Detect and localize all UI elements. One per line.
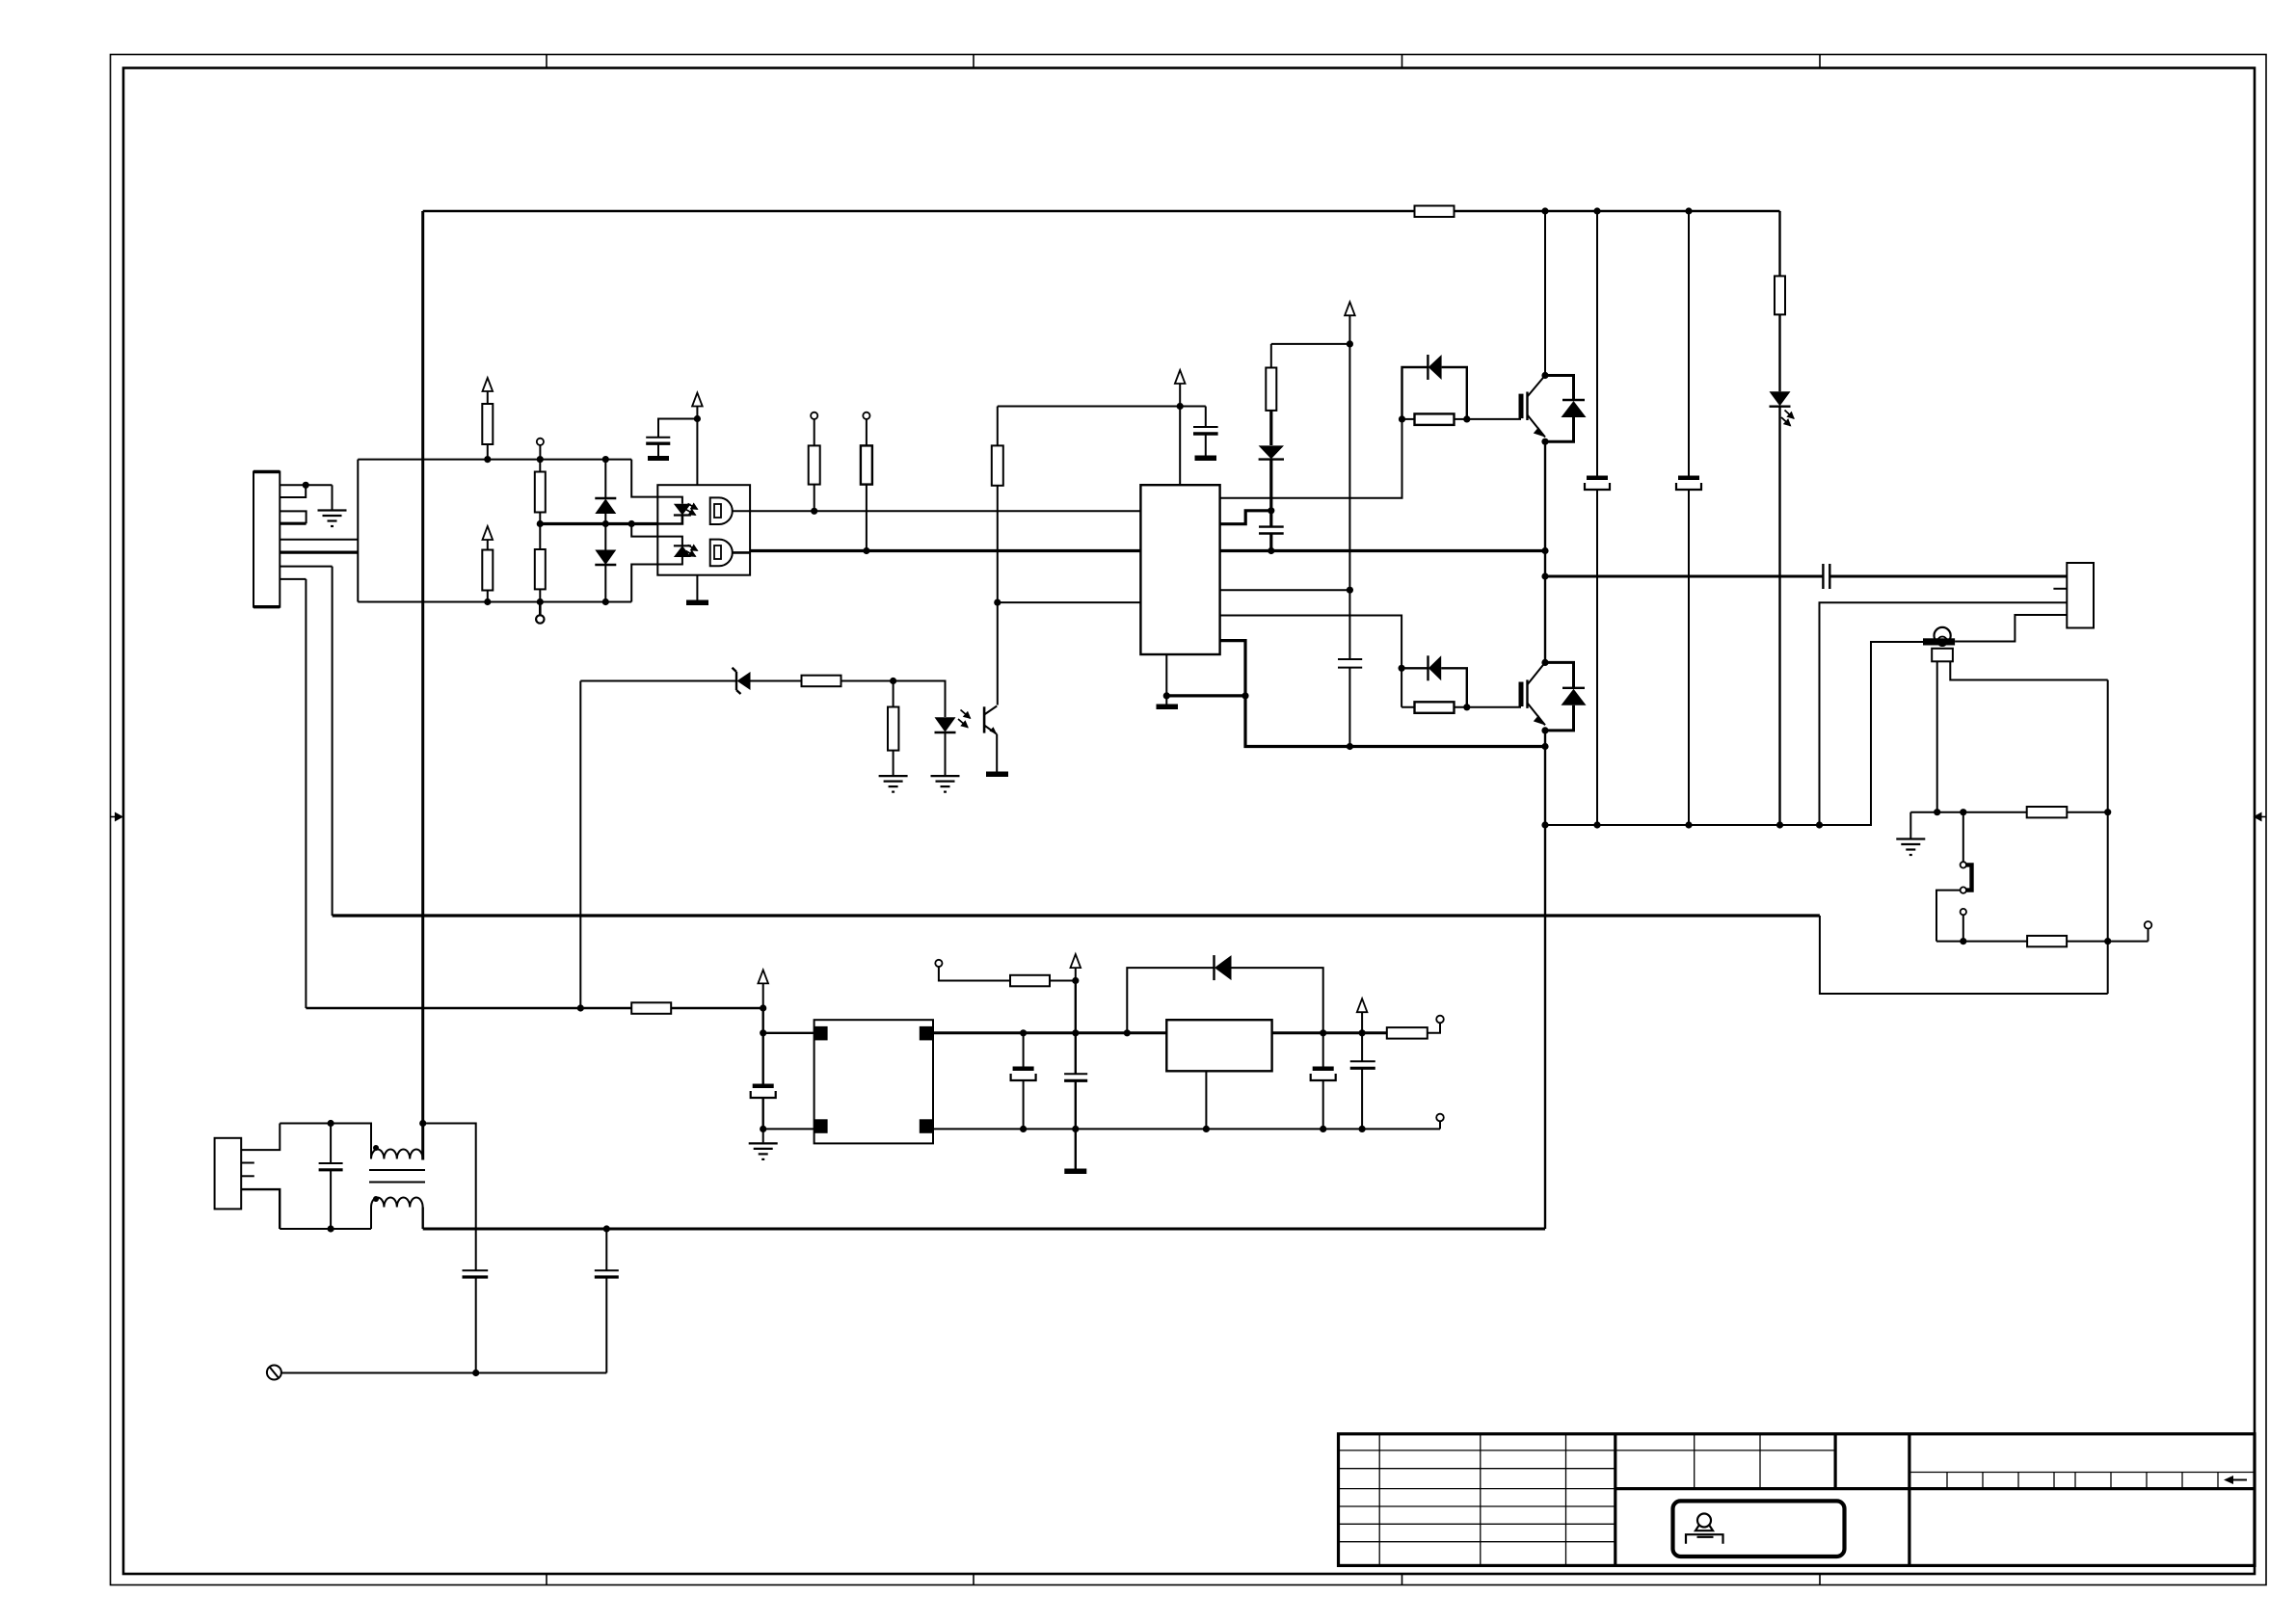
resistor R4 xyxy=(535,524,546,602)
wire mid thick node row xyxy=(540,522,657,525)
regulator U3 box xyxy=(1166,1020,1271,1071)
bottom border tick 1 xyxy=(546,1574,547,1585)
node emitter rail x1603 xyxy=(1541,821,1548,828)
middle section row line thick xyxy=(1615,1487,1909,1490)
wire sense row y842 xyxy=(1910,811,2107,813)
wire opto ch2 to IC (thick) xyxy=(750,549,1545,552)
node IC gnd xyxy=(1163,692,1170,699)
revision table row line 4 xyxy=(1339,1505,1615,1507)
wire y598 to coil connector xyxy=(1545,575,2067,578)
stamp icon shoulders xyxy=(1695,1525,1713,1530)
scale strip divider 4 xyxy=(2053,1473,2055,1489)
node y598 at x1603 xyxy=(1541,572,1548,579)
terminal circle TP2 xyxy=(863,412,869,446)
capacitor C7 (series resonant) xyxy=(1823,564,1829,589)
wire J1 pin7 xyxy=(280,566,332,568)
wire IC vcc pin xyxy=(1179,407,1181,486)
node diode column top rail xyxy=(602,456,609,463)
ground GND3 xyxy=(931,776,960,792)
bar ground IC xyxy=(1157,696,1179,709)
title block outer box xyxy=(1339,1434,2256,1566)
node bus x1752 xyxy=(1685,207,1692,214)
bar ground psu xyxy=(1064,1169,1086,1175)
opto U1 detector2 xyxy=(710,540,750,567)
wire R11 to LED xyxy=(1778,314,1780,391)
wire dc gnd rail xyxy=(933,1128,1440,1130)
wire J2 pin4 xyxy=(241,1189,280,1229)
wire IC pin to x1400 xyxy=(1220,589,1350,591)
wire x1400 vertical xyxy=(1348,344,1350,659)
resistor R1 xyxy=(482,404,493,444)
wire divider top rail xyxy=(358,459,631,461)
node R4 rail xyxy=(537,599,544,605)
LED D4 arrows xyxy=(1781,411,1794,426)
node R5 to ch1 line xyxy=(811,508,817,515)
node dc gnd c9 xyxy=(1020,1126,1027,1132)
wire bridge lower-left xyxy=(763,1128,814,1130)
stamp icon desk xyxy=(1686,1534,1723,1544)
wire R7 column to phototransistor xyxy=(997,602,999,705)
vcc arrow x1400 xyxy=(1345,302,1355,344)
node dc gnd x1115 xyxy=(1072,1126,1079,1132)
capacitor C11 (polarized) xyxy=(1311,1033,1336,1130)
node gate2 diode row xyxy=(1399,665,1405,672)
node IC gnd tie at x1292 xyxy=(1241,692,1248,699)
node bus x1657 xyxy=(1593,207,1600,214)
scale strip divider 9 xyxy=(2217,1473,2219,1489)
phototransistor Q3 xyxy=(984,705,997,772)
diode D3 xyxy=(1259,445,1284,510)
switch S1 xyxy=(1961,812,1972,916)
node x1400 IC pin xyxy=(1347,587,1353,594)
node reg out c11 xyxy=(1320,1029,1326,1036)
wire IC pin gate1 xyxy=(1220,419,1402,498)
revision table column line 3 xyxy=(1565,1434,1567,1566)
wire Q1 gate xyxy=(1467,418,1521,420)
wire IC gnd pin xyxy=(1165,654,1167,696)
resistor R7 (feedback column) xyxy=(992,407,1003,603)
resistor R9 xyxy=(802,676,894,687)
title block thick divider 1 xyxy=(1614,1434,1616,1566)
wire zener column xyxy=(579,681,581,1009)
node rail x1657 xyxy=(1593,821,1600,828)
wire y-cap1 branch xyxy=(423,1124,476,1270)
diode D9 (bypass) xyxy=(1215,955,1232,980)
wire ac bottom rail xyxy=(280,1228,371,1230)
node Q1 gate left xyxy=(1399,415,1405,422)
wire J2 pin3 stub xyxy=(241,1175,254,1177)
wire zener row to opto2 led xyxy=(894,681,946,718)
diode D2 (down) xyxy=(595,524,616,602)
wire J2 pin2 stub xyxy=(241,1162,254,1164)
wire main left vertical xyxy=(421,211,424,1160)
node bridge feed xyxy=(760,1029,766,1036)
node reg gnd xyxy=(1203,1126,1210,1132)
node rail x1752 xyxy=(1685,821,1692,828)
opto U1 led1 arrows xyxy=(686,504,698,516)
node dc gnd c12 xyxy=(1359,1126,1366,1132)
wire J1 pin5 xyxy=(280,539,358,541)
wire choke bottom-left lead xyxy=(370,1208,372,1230)
terminal circle gnd out xyxy=(1436,1114,1444,1130)
scale strip divider 1 xyxy=(1946,1473,1948,1489)
vcc arrow above R2 xyxy=(483,526,494,550)
wire pin7 vertical to return rail xyxy=(332,567,334,916)
IGBT Q1 xyxy=(1521,372,1549,445)
node C4 at y571 xyxy=(1268,547,1274,554)
scale strip divider 2 xyxy=(1982,1473,1984,1489)
wire J1 pin2 xyxy=(280,485,306,497)
wire bypass diode row xyxy=(1127,968,1322,1033)
capacitor C9 (polarized) xyxy=(1011,1033,1036,1130)
wire R12 left node xyxy=(1402,418,1415,420)
middle section row line thin xyxy=(1615,1450,1835,1451)
node pin1-pin2 tie xyxy=(303,482,309,489)
bar ground C2 xyxy=(1195,456,1217,462)
wire J1 pin4 xyxy=(280,522,306,525)
wire IC gnd tie (thick) xyxy=(1166,694,1245,697)
wire psu column to cap xyxy=(762,1033,764,1084)
wire LED chain bottom xyxy=(1778,407,1780,825)
capacitor C15 (Y cap) xyxy=(595,1229,619,1373)
wire opto gnd pin xyxy=(696,575,698,600)
node bottom rail y-cap2 xyxy=(603,1225,610,1232)
wire R2 to rail xyxy=(487,591,489,602)
wire J2 pin1 xyxy=(241,1124,280,1151)
wire rail corner to opto pin1 xyxy=(631,460,657,497)
wire x1657 vertical xyxy=(1596,211,1598,825)
IGBT Q2 xyxy=(1521,659,1549,734)
wire IC pin to R7 column xyxy=(998,601,1141,603)
AC connector J2 xyxy=(215,1138,242,1210)
wire opto pin4 link xyxy=(631,565,657,602)
wire divider bottom rail xyxy=(358,601,631,603)
wire reg gnd pin xyxy=(1205,1071,1207,1129)
revision table column line 1 xyxy=(1378,1434,1380,1566)
wire return rail drop xyxy=(1820,916,2108,994)
node bus x1603 xyxy=(1541,207,1548,214)
vcc arrow psu xyxy=(758,970,768,1008)
wire bridge top feed xyxy=(763,1032,814,1034)
wire R1 to rail xyxy=(487,444,489,460)
node diode column jog xyxy=(1268,507,1274,514)
node diode mid xyxy=(602,520,609,527)
bridge rectifier BR1 xyxy=(814,1020,933,1143)
wire J1 pin6 xyxy=(280,550,358,553)
current transformer CT1 xyxy=(1923,627,1955,661)
scale strip divider 8 xyxy=(2181,1473,2183,1489)
wire opto ch1 output xyxy=(750,510,1140,512)
node R2 rail xyxy=(484,599,491,605)
wire R13 ends xyxy=(1402,706,1467,708)
vcc arrow opto xyxy=(692,393,703,419)
node Q2 gate right xyxy=(1463,704,1470,710)
wire CT right lead xyxy=(1950,661,2107,679)
node opto cathode tie xyxy=(628,520,635,527)
terminal circle above R3 xyxy=(537,439,544,460)
opto U1 led2 arrows xyxy=(686,545,698,557)
wire dc rail (thick) xyxy=(933,1031,1167,1034)
resistor R12 (gate Q1) xyxy=(1415,413,1455,425)
node R3 mid xyxy=(537,520,544,527)
diode D1 (up) xyxy=(595,498,616,524)
node y571 at x1603 xyxy=(1541,547,1548,554)
node psu feed zener column xyxy=(577,1004,584,1011)
vcc arrow above R1 xyxy=(483,378,494,404)
vcc arrow x1115 xyxy=(1071,954,1081,980)
capacitor C8 (polarized) xyxy=(751,1084,776,1130)
resistor R5 xyxy=(809,445,820,511)
wire R17 to node xyxy=(1050,980,1076,982)
top border tick 4 xyxy=(1819,55,1821,68)
node R17 x1115 xyxy=(1072,977,1079,984)
node dc rail x1115 xyxy=(1072,1029,1079,1036)
right section row line thick xyxy=(1909,1487,2255,1490)
bottom border tick 3 xyxy=(1402,1574,1403,1585)
connector J1 xyxy=(254,472,280,607)
wire J3 stub pin2 xyxy=(2053,588,2067,590)
resistor R16 xyxy=(631,1002,671,1014)
wire IC gnd path (thick) xyxy=(1220,641,1545,747)
node sense row switch xyxy=(1960,809,1966,815)
terminal circle TP1 xyxy=(811,412,817,446)
wire Q1 collector drop xyxy=(1544,211,1546,376)
diode D7 (antiparallel gate Q2) xyxy=(1402,655,1467,707)
resistor R8 (snubber column) xyxy=(1266,344,1276,445)
revision table row line 3 xyxy=(1339,1488,1615,1490)
ground GND2 xyxy=(879,776,908,792)
wire psu column down xyxy=(762,1008,764,1033)
wire earth line xyxy=(281,1372,606,1374)
bar ground C1 xyxy=(648,456,669,461)
node R6 to ch2 line xyxy=(863,547,869,554)
wire CT left lead xyxy=(1936,661,1938,811)
node Q1 gate right xyxy=(1463,415,1470,422)
wire pin8 vertical to psu feed xyxy=(305,579,307,1008)
wire reg output xyxy=(1272,1031,1387,1034)
bar ground opto xyxy=(686,600,708,606)
capacitor C4 xyxy=(1259,511,1284,551)
LED D4 xyxy=(1770,391,1791,407)
wire x1115 vertical xyxy=(1075,981,1077,1074)
resistor R6 xyxy=(861,445,872,550)
wire emitter rail xyxy=(1545,642,1923,825)
scale strip divider 6 xyxy=(2110,1473,2112,1489)
capacitor C12 xyxy=(1350,1033,1375,1130)
capacitor C13 (X cap) xyxy=(319,1124,343,1230)
capacitor C6 (polarized) xyxy=(1676,476,1701,491)
node zener row xyxy=(890,678,896,684)
wire LED chain top xyxy=(1778,211,1780,276)
wire x2186 vertical xyxy=(2107,680,2109,995)
node dc rail c9 xyxy=(1020,1029,1027,1036)
coil connector J3 xyxy=(2067,563,2094,628)
resistor R11 xyxy=(1775,276,1785,314)
node R3 rail xyxy=(537,456,544,463)
IC U2 box xyxy=(1140,485,1219,654)
capacitor C5 (polarized) xyxy=(1585,476,1610,491)
scale strip divider 3 xyxy=(2017,1473,2019,1489)
stamp rounded box xyxy=(1673,1501,1845,1556)
optocoupler U1 box xyxy=(657,485,750,575)
wire J1 pin3 xyxy=(280,511,306,523)
node choke top feed xyxy=(419,1120,426,1127)
wire J3 pin4 to CT xyxy=(1955,615,2067,642)
zener ZD1 xyxy=(580,668,801,694)
diode D8 (freewheel Q2) xyxy=(1545,662,1587,731)
terminal circle psu aux xyxy=(935,960,1010,981)
terminal circle 18V out xyxy=(1428,1016,1444,1033)
right section row line thin xyxy=(1909,1472,2255,1474)
node y774 at x1400 xyxy=(1347,743,1353,750)
revision table row line 2 xyxy=(1339,1468,1615,1470)
node ac top xcap xyxy=(328,1120,334,1127)
node R1 rail xyxy=(484,456,491,463)
node R7 column IC pin xyxy=(994,599,1001,606)
capacitor C3 on x1400 xyxy=(1338,659,1362,747)
revision table column line 2 xyxy=(1480,1434,1482,1566)
capacitor C2 xyxy=(1193,427,1218,456)
wire ac top rail xyxy=(280,1124,371,1159)
wire lower row y976 xyxy=(1936,941,2149,943)
ground GND1 xyxy=(318,511,347,527)
wire x1752 vertical xyxy=(1688,211,1690,825)
stamp icon head circle xyxy=(1697,1514,1711,1528)
wire pin1 to ground xyxy=(332,485,334,509)
title block thick divider 2 xyxy=(1908,1434,1910,1566)
wire switch pole3 xyxy=(1962,915,1964,941)
wire dc return rail bottom (thick) xyxy=(423,1228,1545,1231)
ground GND4 xyxy=(1896,839,1925,856)
wire divider left edge xyxy=(357,460,359,602)
resistor R2 xyxy=(482,550,493,591)
choke L1 winding bottom xyxy=(371,1196,423,1208)
node sense row CT lead xyxy=(1934,809,1940,815)
wire IC pin to gate2 network xyxy=(1220,616,1402,707)
node lower row switch xyxy=(1960,938,1966,945)
left border centering arrow xyxy=(111,812,124,822)
capacitor C10 xyxy=(1064,1074,1087,1168)
terminal circle out2 xyxy=(2145,921,2152,942)
node ac bottom xcap xyxy=(328,1225,334,1232)
ground GND5 xyxy=(749,1143,778,1159)
capacitor C14 (Y cap) xyxy=(463,1270,489,1372)
revision table row line 1 xyxy=(1339,1450,1615,1451)
diode D6 (freewheel Q1) xyxy=(1545,376,1587,442)
revision table row line 5 xyxy=(1339,1523,1615,1525)
revision table row line 6 xyxy=(1339,1541,1615,1543)
resistor R18 xyxy=(1387,1027,1428,1039)
node rail x1846 xyxy=(1776,821,1783,828)
resistor R15 xyxy=(2027,936,2067,946)
wire opto vcc to cap xyxy=(658,419,697,438)
node earth ycap1 xyxy=(472,1370,479,1376)
scale strip arrow xyxy=(2224,1476,2247,1484)
wire vcc1318 row xyxy=(1271,343,1350,345)
capacitor C1 xyxy=(646,438,670,456)
wire return rail (thick) xyxy=(333,914,1820,917)
opto U1 led1 xyxy=(657,497,691,524)
resistor R13 (gate Q2) xyxy=(1415,702,1455,713)
wire diode column top xyxy=(604,460,606,498)
opto2 light arrows xyxy=(958,710,971,728)
node y774 at x1603 xyxy=(1541,743,1548,750)
resistor R17 xyxy=(1010,975,1050,987)
title block thick divider 3 (partial) xyxy=(1833,1434,1836,1489)
stamp icon desk underline xyxy=(1697,1536,1714,1538)
wire Q1 emitter to Q2 collector xyxy=(1544,441,1546,662)
bottom border tick 4 xyxy=(1819,1574,1821,1585)
wire R12 right node xyxy=(1455,418,1467,420)
node vcc1400 xyxy=(1347,340,1353,347)
wire choke bottom-right lead xyxy=(422,1208,424,1230)
wire J1 pin8 xyxy=(280,578,306,580)
resistor R10 xyxy=(888,681,898,776)
wire Q2 emitter down xyxy=(1544,731,1546,1229)
node reg out vcc xyxy=(1359,1029,1366,1036)
wire gnd drop y842 xyxy=(1909,812,1911,838)
middle section column line 2 xyxy=(1759,1434,1761,1489)
wire J1 pin1 xyxy=(280,484,332,486)
node sense row right xyxy=(2104,809,2111,815)
middle section column line 1 xyxy=(1694,1434,1695,1489)
wire switch common xyxy=(1936,891,1961,942)
top border tick 3 xyxy=(1402,55,1403,68)
wire Q2 gate xyxy=(1467,706,1521,708)
node diode bottom rail xyxy=(602,599,609,605)
vcc arrow IC xyxy=(1175,370,1186,407)
bottom border tick 2 xyxy=(973,1574,974,1585)
node rail x1887 xyxy=(1816,821,1823,828)
node dc gnd c11 xyxy=(1320,1126,1326,1132)
wire top bus xyxy=(423,210,1780,213)
scale strip divider 5 xyxy=(2074,1473,2076,1489)
earth terminal symbol xyxy=(267,1366,281,1380)
top border tick 1 xyxy=(546,55,547,68)
opto U1 led2 xyxy=(657,537,691,565)
resistor R14 xyxy=(2027,807,2068,817)
node opto vcc xyxy=(694,415,701,422)
wire opto vcc pin xyxy=(696,419,698,486)
opto2 led xyxy=(935,717,956,775)
wire psu gnd stub xyxy=(762,1129,764,1142)
scale strip divider 7 xyxy=(2146,1473,2148,1489)
terminal circle below R4 xyxy=(536,602,544,624)
wire psu feed y1046 xyxy=(306,1007,762,1009)
node psu feed right xyxy=(760,1004,766,1011)
node vcc row at IC xyxy=(1177,403,1184,410)
top border tick 2 xyxy=(973,55,974,68)
wire J3 pin3 return xyxy=(1820,602,2068,825)
node dc rail reg-in bypass xyxy=(1124,1029,1131,1036)
wire opto pin3 link xyxy=(631,524,657,537)
choke L1 core xyxy=(369,1170,425,1183)
node lower row right xyxy=(2104,938,2111,945)
diode D5 (antiparallel gate Q1) xyxy=(1402,355,1467,419)
right border centering arrow xyxy=(2254,812,2267,822)
node psu gnd row left xyxy=(760,1126,766,1132)
bar ground phototransistor xyxy=(986,772,1008,778)
fuse F1 xyxy=(1415,206,1455,218)
wire vcc row to cap C2 xyxy=(1205,407,1207,427)
wire IC pin jog to diode column xyxy=(1220,511,1271,524)
vcc arrow 5v xyxy=(1357,998,1368,1033)
opto U1 detector1 xyxy=(710,497,750,524)
resistor R3 xyxy=(535,460,546,524)
wire vcc row to IC xyxy=(998,406,1206,408)
choke L1 winding top xyxy=(371,1145,423,1159)
